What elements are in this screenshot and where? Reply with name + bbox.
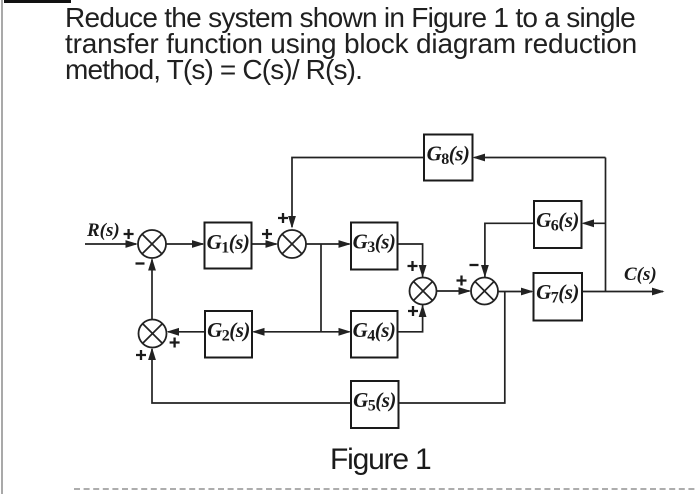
svg-text:G2(s): G2(s) [207,318,250,345]
svg-text:R(s): R(s) [86,220,120,241]
svg-text:G6(s): G6(s) [536,208,579,235]
svg-text:G7(s): G7(s) [536,280,579,307]
svg-text:G8(s): G8(s) [427,142,470,169]
svg-text:G3(s): G3(s) [353,230,396,257]
svg-text:C(s): C(s) [624,264,657,285]
svg-text:G1(s): G1(s) [207,230,250,257]
svg-text:G4(s): G4(s) [353,318,396,345]
svg-text:G5(s): G5(s) [353,388,396,415]
